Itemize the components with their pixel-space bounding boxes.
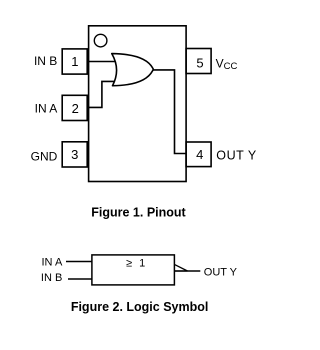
svg-text:1: 1 (71, 54, 78, 69)
svg-text:Figure 2. Logic Symbol: Figure 2. Logic Symbol (71, 300, 209, 314)
svg-text:5: 5 (196, 56, 203, 71)
svg-text:IN B: IN B (34, 54, 57, 68)
pin 5 box (186, 49, 211, 74)
logic symbol box (92, 255, 174, 285)
pin-1 indicator circle (94, 34, 107, 47)
wire IN B input (68, 278, 92, 280)
pin 3 box (62, 142, 87, 167)
svg-text:OUT Y: OUT Y (204, 266, 238, 278)
svg-text:4: 4 (196, 147, 203, 162)
wire OUT Y output (174, 270, 200, 272)
svg-text:Figure 1. Pinout: Figure 1. Pinout (91, 205, 186, 219)
or-gate G1 (112, 54, 153, 86)
pin 1 box (62, 49, 87, 74)
svg-text:GND: GND (31, 149, 58, 163)
svg-text:2: 2 (72, 101, 79, 116)
svg-text:≥ 1: ≥ 1 (126, 258, 147, 270)
pin 4 box (186, 142, 211, 167)
svg-text:OUT Y: OUT Y (216, 149, 257, 163)
wire gate output to pin 4 (153, 70, 186, 154)
svg-text:IN A: IN A (35, 101, 58, 115)
pin 2 box (62, 95, 87, 120)
wire IN A input (66, 261, 92, 263)
svg-text:IN B: IN B (41, 272, 62, 284)
svg-text:3: 3 (71, 147, 78, 162)
output wedge (174, 264, 187, 271)
package body U1 (SC70/SOT-23 outline) (89, 26, 187, 182)
wire pin1 to gate input A (87, 61, 115, 63)
wire pin2 to gate input B (step) (87, 81, 114, 107)
svg-text:IN A: IN A (42, 257, 63, 269)
